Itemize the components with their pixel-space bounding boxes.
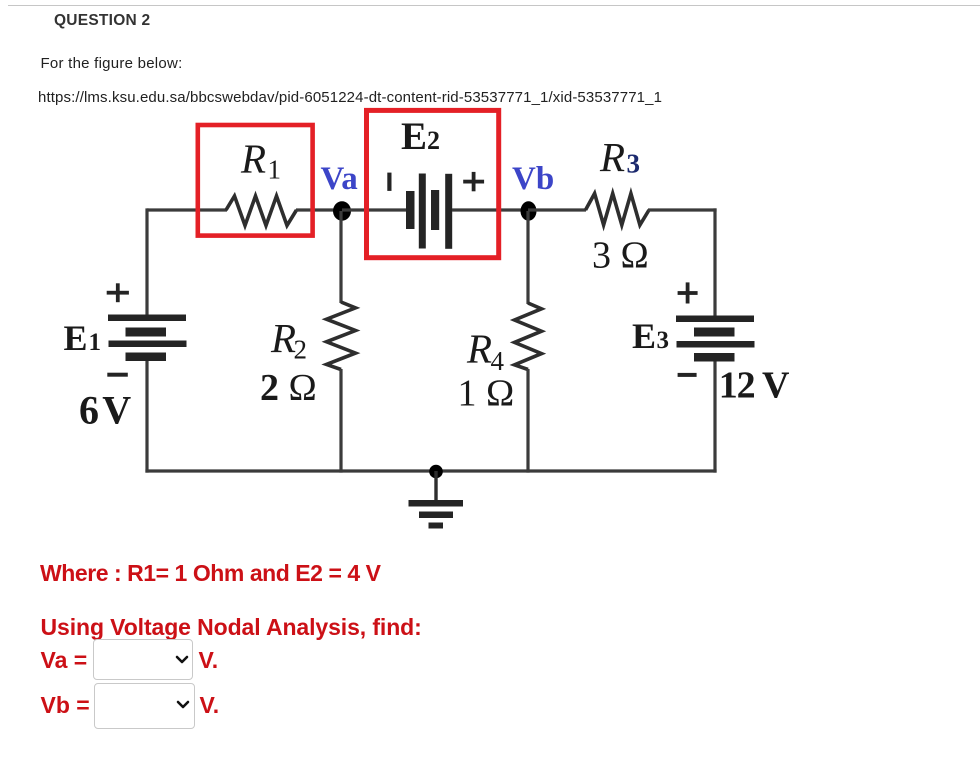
svg-text:3 Ω: 3 Ω <box>592 234 649 276</box>
red text: where clause <box>40 562 381 585</box>
red text: using voltage nodal analysis <box>41 616 422 639</box>
wire: left vertical lower (E1 minus lead) <box>145 361 148 473</box>
label + of E2 <box>463 172 484 191</box>
wire: top left horizontal (E1 top to R1) <box>147 208 227 211</box>
red highlight box around R1 <box>198 125 313 236</box>
red text: V. row2 <box>200 694 220 717</box>
text: For the figure below <box>41 56 183 71</box>
wire: battery E2 to node B <box>452 208 529 211</box>
wire: node A down to R2 <box>339 211 342 303</box>
resistor R4 <box>515 303 542 370</box>
battery E2 plates <box>406 174 452 249</box>
top divider line <box>8 5 980 6</box>
battery E3 plates <box>676 316 755 362</box>
resistor R1 <box>226 196 297 226</box>
svg-text:E: E <box>401 115 427 158</box>
svg-text:3: 3 <box>627 149 641 179</box>
svg-text:2: 2 <box>427 126 440 155</box>
svg-text:3: 3 <box>657 327 670 354</box>
svg-text:4: 4 <box>491 346 505 376</box>
svg-text:E: E <box>64 318 88 358</box>
resistor R3 <box>586 194 650 226</box>
label + of E3 <box>678 282 698 303</box>
svg-text:2: 2 <box>294 335 308 365</box>
wire: left vertical upper (E1 plus lead) <box>145 208 148 317</box>
wire: R1 to node A <box>296 208 342 211</box>
red text: Vb = <box>41 694 90 717</box>
svg-text:1: 1 <box>268 155 282 185</box>
wire: bottom horizontal <box>145 469 716 472</box>
circuit schematic svg <box>0 0 980 560</box>
svg-text:E: E <box>632 316 656 356</box>
svg-text:R: R <box>599 134 625 180</box>
wire: node B to R3 <box>528 208 586 211</box>
label I (current mark) <box>387 173 391 191</box>
wire: right vertical upper (E3 plus lead) <box>713 208 716 317</box>
dropdown select 2 <box>94 683 195 729</box>
ground <box>409 500 464 529</box>
resistor R2 <box>327 302 356 370</box>
svg-text:R: R <box>270 315 296 361</box>
red text: V. row1 <box>199 649 219 672</box>
node B (Vb junction dot) <box>521 201 537 221</box>
svg-text:Vb: Vb <box>512 161 554 197</box>
svg-text:1 Ω: 1 Ω <box>458 373 515 415</box>
chevron 1 <box>175 655 189 665</box>
svg-text:R: R <box>240 136 266 182</box>
wire: R3 to right vertical <box>648 208 717 211</box>
label - of E3 <box>678 373 697 377</box>
heading QUESTION 2 <box>54 13 150 29</box>
battery E1 plates <box>108 315 187 362</box>
svg-text:R: R <box>466 326 492 372</box>
label + of E1 <box>107 283 129 302</box>
red text: Va = <box>41 649 88 672</box>
url text <box>38 90 662 105</box>
node A (Va junction dot) <box>333 201 351 221</box>
wire: right vertical lower (E3 minus lead) <box>713 362 716 473</box>
chevron 2 <box>176 700 190 710</box>
wire: R2 down to bottom wire <box>339 369 342 473</box>
node: ground junction dot <box>429 465 443 479</box>
svg-text:12 V: 12 V <box>719 365 790 407</box>
svg-text:6 V: 6 V <box>79 387 131 432</box>
svg-text:2 Ω: 2 Ω <box>260 367 317 409</box>
svg-text:1: 1 <box>89 329 102 356</box>
wire: node A to battery E2 <box>342 208 406 211</box>
label - of E1 <box>107 373 128 377</box>
svg-text:Va: Va <box>321 161 358 197</box>
wire: ground stem <box>434 471 437 500</box>
wire: R4 down to bottom wire <box>526 369 529 473</box>
wire: node B down to R4 <box>526 211 529 304</box>
dropdown select 1 <box>93 639 193 680</box>
red highlight box around E2 <box>367 110 499 257</box>
